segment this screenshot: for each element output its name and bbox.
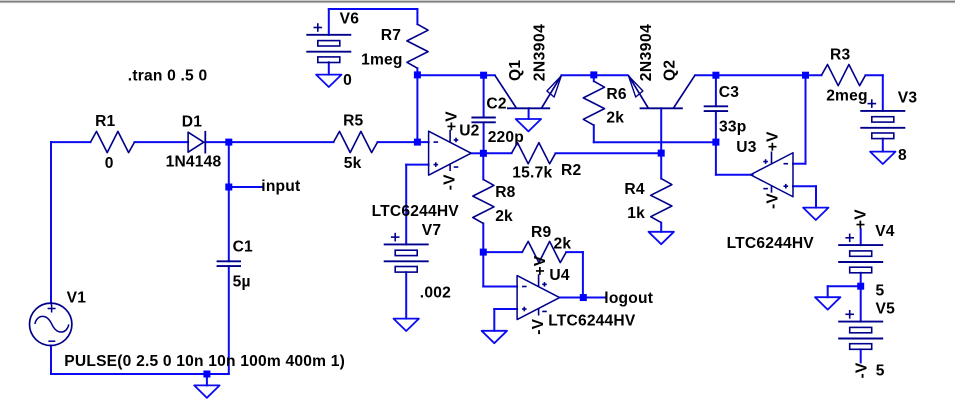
svg-text:.tran 0 .5 0: .tran 0 .5 0: [128, 68, 208, 85]
label V4: [875, 223, 895, 240]
wire: [228, 142, 230, 261]
svg-text:C3: C3: [719, 84, 739, 101]
voltage source V1: [30, 303, 72, 345]
wire: [827, 286, 829, 297]
voltage source V3 battery: [860, 99, 905, 138]
wire: [560, 297, 605, 299]
value V7 .002: [420, 285, 451, 302]
svg-text:-V: -V: [530, 318, 547, 334]
wire: [328, 62, 330, 74]
wire: [815, 186, 817, 207]
svg-text:5k: 5k: [344, 155, 362, 172]
svg-text:V1: V1: [67, 290, 87, 307]
value V1 PULSE: [64, 353, 345, 370]
label Q1: [507, 60, 524, 81]
wire: [660, 108, 662, 153]
value U3 LTC6244HV: [727, 235, 815, 252]
wire: [482, 223, 484, 252]
resistor R6: [583, 81, 604, 125]
label Q2: [662, 60, 679, 81]
wire: [582, 252, 584, 297]
net label -V of U3: [764, 193, 781, 209]
svg-text:+V: +V: [443, 111, 460, 131]
svg-text:1meg: 1meg: [361, 52, 403, 69]
transistor Q2: [628, 75, 695, 108]
label R3: [830, 46, 850, 63]
label C3: [719, 84, 739, 101]
net label logout: [604, 290, 653, 307]
op-amp U3: [751, 151, 794, 196]
wire: [482, 252, 484, 286]
label R8: [495, 184, 515, 201]
wire: [695, 74, 822, 76]
wire: [229, 141, 334, 143]
wire: [416, 68, 418, 142]
wire: [417, 74, 494, 76]
label D1: [182, 114, 202, 131]
resistor R2: [512, 143, 556, 164]
op-amp U2: [429, 130, 472, 175]
wire: [594, 141, 716, 143]
wire: [50, 346, 52, 374]
svg-text:V3: V3: [898, 90, 918, 107]
net label -V of U4: [530, 318, 547, 334]
wire: [206, 374, 208, 385]
svg-text:8: 8: [898, 147, 907, 164]
svg-text:2N3904: 2N3904: [532, 24, 549, 82]
wire: [828, 285, 861, 287]
ground R4: [649, 232, 674, 244]
ground V7: [394, 319, 419, 331]
wire: [556, 152, 662, 154]
svg-text:-V: -V: [441, 174, 458, 190]
label U3: [736, 139, 756, 156]
svg-text:-V: -V: [853, 362, 870, 378]
svg-text:R9: R9: [531, 224, 551, 241]
svg-text:+V: +V: [765, 131, 782, 151]
resistor R5: [334, 131, 378, 152]
svg-text:V7: V7: [422, 222, 441, 239]
svg-text:15.7k: 15.7k: [512, 164, 552, 181]
label R9: [531, 224, 551, 241]
svg-text:LTC6244HV: LTC6244HV: [727, 235, 815, 252]
value R1 0: [105, 155, 114, 172]
svg-text:2k: 2k: [554, 236, 572, 253]
wire: [229, 186, 262, 188]
resistor R9: [522, 241, 566, 262]
svg-text:.002: .002: [420, 285, 451, 302]
svg-text:Q2: Q2: [662, 60, 679, 81]
wire: [483, 251, 522, 253]
label V3: [898, 90, 918, 107]
op-amp U4: [517, 274, 560, 319]
svg-text:D1: D1: [182, 114, 202, 131]
wire: [660, 153, 662, 179]
svg-text:Q1: Q1: [507, 60, 524, 81]
svg-text:R1: R1: [95, 113, 115, 130]
wire: [50, 142, 52, 303]
value V3 8: [898, 147, 907, 164]
wire: [793, 163, 806, 165]
ground U3: [803, 208, 828, 220]
value R8 2k: [495, 208, 513, 225]
wire: [378, 141, 429, 143]
label U2: [459, 123, 479, 140]
value C2 220p: [488, 129, 524, 146]
wire: [715, 75, 717, 106]
ground Q1 base: [516, 119, 541, 131]
value V5 5: [876, 363, 885, 380]
value R4 1k: [627, 205, 645, 222]
wire: [328, 9, 330, 35]
wire: [329, 8, 418, 10]
label R5: [343, 112, 363, 129]
wire: [882, 75, 884, 111]
svg-text:-V: -V: [764, 193, 781, 209]
voltage source V4 battery: [838, 234, 883, 273]
wire: [716, 174, 753, 176]
label R6: [606, 86, 626, 103]
value R7 1meg: [361, 52, 403, 69]
svg-text:R4: R4: [624, 181, 644, 198]
wire: [528, 108, 530, 119]
value Q1 2N3904: [532, 24, 549, 82]
wire: [860, 229, 862, 245]
svg-text:R7: R7: [381, 27, 401, 44]
wire: [562, 74, 628, 76]
value C3 33p: [719, 119, 746, 136]
svg-text:R6: R6: [606, 86, 626, 103]
svg-text:R3: R3: [830, 46, 850, 63]
net label +V of U4: [532, 255, 549, 275]
resistor R3: [822, 65, 866, 86]
wire: [860, 273, 862, 322]
svg-text:U2: U2: [459, 123, 479, 140]
svg-text:V4: V4: [875, 223, 895, 240]
label V1: [67, 290, 87, 307]
svg-text:5: 5: [876, 283, 885, 300]
svg-text:V5: V5: [876, 300, 896, 317]
svg-text:logout: logout: [604, 290, 653, 307]
ground V6: [316, 75, 341, 87]
value Q2 2N3904: [638, 24, 655, 82]
svg-text:LTC6244HV: LTC6244HV: [372, 203, 460, 220]
label V6: [340, 10, 360, 27]
capacitor C2: [471, 118, 495, 123]
resistor R8: [473, 179, 494, 223]
capacitor C1: [217, 261, 241, 266]
net label +V of U3: [765, 131, 782, 151]
ground V4-V5 midpoint: [815, 297, 840, 309]
wire: [483, 152, 511, 154]
wire: [660, 223, 662, 232]
wire: [805, 75, 807, 164]
value D1 1N4148: [166, 154, 222, 171]
svg-text:2k: 2k: [606, 110, 624, 127]
border top gray line: [0, 1, 955, 4]
svg-text:5µ: 5µ: [233, 273, 251, 290]
label R7: [381, 27, 401, 44]
net label -V of U2: [441, 174, 458, 190]
value U2 LTC6244HV: [372, 203, 460, 220]
value R5 5k: [344, 155, 362, 172]
label U4: [549, 267, 569, 284]
wire: [205, 141, 229, 143]
wire: [593, 75, 595, 81]
wire: [471, 152, 483, 154]
svg-text:2N3904: 2N3904: [638, 24, 655, 82]
value R3 2meg: [826, 87, 868, 104]
wire: [715, 111, 717, 175]
svg-text:0: 0: [343, 72, 352, 89]
value R6 2k: [606, 110, 624, 127]
svg-text:C1: C1: [233, 239, 253, 256]
wire: [51, 141, 91, 143]
wire: [882, 139, 884, 152]
voltage source V7 battery: [384, 233, 429, 272]
svg-text:1N4148: 1N4148: [166, 154, 222, 171]
label V5: [876, 300, 896, 317]
svg-text:input: input: [261, 178, 300, 195]
wire: [483, 122, 485, 153]
diode D1: [188, 131, 205, 154]
svg-text:U4: U4: [549, 267, 569, 284]
wire: [482, 153, 484, 179]
svg-text:C2: C2: [486, 96, 506, 113]
resistor R7: [407, 24, 428, 68]
svg-text:1k: 1k: [627, 205, 645, 222]
ground U4: [482, 331, 507, 343]
voltage source V6 battery: [306, 23, 351, 62]
ground V3: [870, 152, 895, 164]
wire: [493, 309, 495, 331]
svg-text:+V: +V: [532, 255, 549, 275]
label C1: [233, 239, 253, 256]
wire: [483, 75, 485, 117]
svg-text:5: 5: [876, 363, 885, 380]
wire: [494, 308, 517, 310]
spice directive: [128, 68, 208, 85]
label V7: [422, 222, 441, 239]
label R2: [561, 162, 581, 179]
resistor R4: [651, 179, 672, 223]
voltage source V5 battery: [838, 310, 883, 349]
wire: [135, 141, 189, 143]
svg-text:2k: 2k: [495, 208, 513, 225]
svg-text:+V: +V: [852, 209, 869, 229]
svg-text:V6: V6: [340, 10, 360, 27]
capacitor C3: [704, 106, 728, 111]
wire: [566, 251, 583, 253]
svg-text:PULSE(0 2.5 0 10n 10n 100m 400: PULSE(0 2.5 0 10n 10n 100m 400m 1): [64, 353, 345, 370]
wire: [405, 165, 407, 245]
node input label: [261, 178, 300, 195]
svg-text:R5: R5: [343, 112, 363, 129]
svg-text:R2: R2: [561, 162, 581, 179]
svg-text:0: 0: [105, 155, 114, 172]
wire: [866, 74, 883, 76]
value C1 5u: [233, 273, 251, 290]
label C2: [486, 96, 506, 113]
wire: [51, 373, 229, 375]
wire: [405, 272, 407, 318]
label R4: [624, 181, 644, 198]
svg-text:R8: R8: [495, 184, 515, 201]
svg-text:U3: U3: [736, 139, 756, 156]
value V4 5: [876, 283, 885, 300]
value R9 2k: [554, 236, 572, 253]
wire: [416, 9, 418, 24]
net label +V of V4: [852, 209, 869, 229]
wire: [228, 266, 230, 374]
wire: [593, 125, 595, 142]
wire: [483, 286, 517, 288]
svg-text:33p: 33p: [719, 119, 746, 136]
label R1: [95, 113, 115, 130]
wire: [860, 349, 862, 362]
wire: [793, 185, 816, 187]
transistor Q1: [495, 75, 562, 108]
svg-text:LTC6244HV: LTC6244HV: [548, 312, 636, 329]
net label +V of U2: [443, 111, 460, 131]
value U4 LTC6244HV: [548, 312, 636, 329]
svg-text:2meg: 2meg: [826, 87, 868, 104]
ground bottom: [194, 385, 219, 397]
value V6 0: [343, 72, 352, 89]
resistor R1: [91, 131, 135, 152]
net label -V of V5: [853, 362, 870, 378]
value R2 15.7k: [512, 164, 552, 181]
wire: [406, 164, 428, 166]
